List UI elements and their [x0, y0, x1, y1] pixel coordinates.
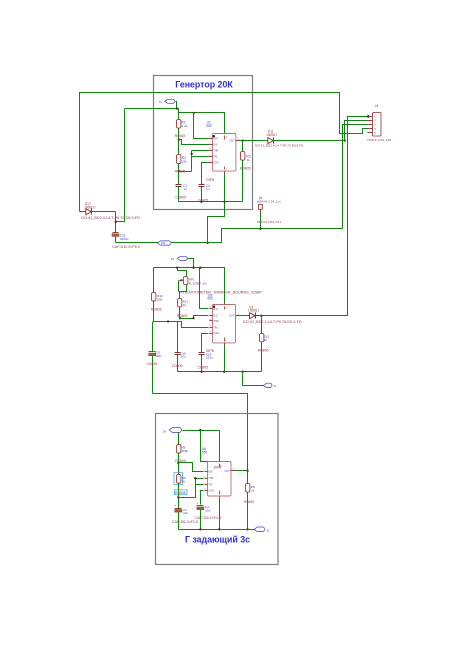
wire R2 to C1: [178, 164, 180, 185]
svg-text:+: +: [196, 502, 198, 506]
svg-text:3300u: 3300u: [120, 237, 129, 241]
svg-text:500: 500: [157, 297, 162, 301]
capacitor C19: [198, 334, 214, 372]
svg-text:1n: 1n: [206, 187, 210, 191]
wire gnd bus middle: [178, 371, 262, 373]
resistor R8: [244, 471, 255, 530]
svg-text:C0805: C0805: [147, 362, 158, 366]
svg-text:DO-41_BD2.4-L4.7-P8.70-D0.9-FD: DO-41_BD2.4-L4.7-P8.70-D0.9-FD: [243, 320, 302, 324]
svg-text:POTENTIOMETER_TRIMMER_BOURNS_3: POTENTIOMETER_TRIMMER_BOURNS_3296P: [179, 290, 262, 294]
wire bus to J4 pin 3: [208, 125, 368, 243]
svg-text:R0805: R0805: [240, 166, 251, 170]
svg-text:+: +: [174, 504, 176, 508]
title Генертор 20К: [175, 80, 233, 90]
svg-text:DIP8: DIP8: [214, 466, 222, 470]
resistor R1: [175, 113, 188, 139]
svg-text:100n: 100n: [155, 354, 162, 358]
wire RST branch to U1: [194, 113, 209, 139]
svg-text:OUT: OUT: [229, 315, 235, 318]
svg-text:C0805: C0805: [175, 196, 186, 200]
wire R13 to DIS: [179, 307, 209, 320]
svg-text:555: 555: [202, 451, 208, 455]
capacitor C18: [172, 322, 186, 372]
wire J6 to bus: [260, 213, 262, 229]
svg-text:Г задающий 3с: Г задающий 3с: [185, 535, 250, 545]
diode D11: [255, 130, 346, 148]
diode D3: [239, 305, 302, 324]
svg-text:CAP-D10.0×P5.0: CAP-D10.0×P5.0: [112, 245, 140, 249]
svg-text:OUT: OUT: [229, 140, 235, 143]
svg-text:1N5817: 1N5817: [248, 309, 260, 313]
svg-text:DO-41_BD2.4-L4.7-P8.70-D0.9-FD: DO-41_BD2.4-L4.7-P8.70-D0.9-FD: [255, 144, 304, 148]
svg-text:1k: 1k: [247, 158, 251, 162]
resistor R2: [175, 155, 188, 174]
svg-text:R0805: R0805: [175, 491, 186, 495]
svg-text:DIS: DIS: [208, 470, 213, 473]
wire U6 gnd to rail: [219, 500, 221, 530]
net flag 5V top: [159, 99, 177, 108]
wire R5 to R6 and DIS stair: [177, 453, 203, 475]
resistor R6: [174, 473, 187, 495]
wire to net flag 3s middle: [243, 372, 264, 386]
svg-text:10u: 10u: [205, 509, 210, 513]
svg-text:1N5817: 1N5817: [84, 206, 96, 210]
svg-text:TRI: TRI: [208, 484, 212, 487]
op-amp U6 555: [202, 447, 235, 499]
svg-text:HDR-F-2.54_1X5: HDR-F-2.54_1X5: [367, 138, 391, 142]
net flag 5V middle: [171, 256, 194, 267]
svg-text:1k: 1k: [183, 303, 187, 307]
svg-text:CON: CON: [208, 489, 214, 492]
wire VCC rail bottom: [183, 429, 220, 459]
resistor R15: [258, 316, 269, 372]
resistor R3: [240, 141, 251, 202]
svg-text:CON: CON: [213, 332, 219, 335]
wire R1 to R2 and DIS stair: [178, 129, 209, 155]
wire RST branch to U5: [200, 268, 209, 309]
svg-text:1N5817: 1N5817: [266, 133, 277, 137]
svg-text:R0805: R0805: [177, 314, 188, 318]
capacitor C11: [112, 233, 140, 250]
diode D17: [80, 202, 141, 220]
wire RP1 wiper and bottom to R13: [179, 281, 187, 299]
wire VCC rail top box: [125, 107, 225, 133]
svg-text:24V: 24V: [161, 241, 166, 245]
wire gnd drop from box to bus: [208, 202, 225, 243]
svg-text:DIS: DIS: [213, 144, 218, 147]
net flag 1s bottom: [163, 428, 182, 445]
frame box generator 20K: [154, 76, 253, 210]
svg-text:3k: 3k: [182, 480, 186, 484]
wire R6 to C3 and THR TRI tie: [177, 477, 203, 509]
op-amp U5 555: [207, 293, 239, 345]
svg-text:DO-41_BD2.4-L4.7-P8.70-D0.9-FD: DO-41_BD2.4-L4.7-P8.70-D0.9-FD: [81, 216, 140, 220]
wire 24V left vertical and top horizontal to J4 pin 4: [80, 93, 368, 212]
svg-text:THR: THR: [213, 320, 218, 323]
wire U5 gnd to bus: [224, 346, 226, 372]
svg-text:C0805: C0805: [198, 366, 209, 370]
svg-text:DIP8: DIP8: [206, 178, 214, 182]
svg-text:C0805: C0805: [172, 364, 183, 368]
svg-text:R0805: R0805: [151, 307, 162, 311]
wire VCC rail middle: [154, 267, 225, 302]
capacitor C4: [198, 163, 210, 203]
wire J4 pin2 to D11: [345, 121, 368, 141]
net flag 3s bottom: [248, 527, 270, 532]
wire U1 out: [239, 139, 268, 141]
net flag 24V: [158, 241, 172, 245]
svg-text:THR: THR: [213, 149, 218, 152]
svg-text:555: 555: [207, 297, 213, 301]
svg-text:TRI: TRI: [213, 156, 217, 159]
svg-text:THR: THR: [208, 477, 213, 480]
op-amp U1 555: [206, 121, 240, 182]
wire U1 gnd pin to bus: [224, 175, 226, 202]
svg-text:Генертор 20К: Генертор 20К: [175, 80, 233, 90]
svg-text:R_3296P_EU: R_3296P_EU: [189, 282, 207, 286]
svg-text:100n: 100n: [206, 356, 213, 360]
svg-text:R0805: R0805: [258, 349, 269, 353]
svg-text:555: 555: [206, 124, 212, 128]
svg-text:2.2k: 2.2k: [182, 124, 188, 128]
svg-text:22k: 22k: [182, 160, 187, 164]
svg-text:CAP-D6.3×F2.5: CAP-D6.3×F2.5: [195, 516, 221, 520]
wire long link middle to bottom: [153, 394, 248, 471]
svg-text:10u: 10u: [183, 511, 188, 515]
svg-text:1n: 1n: [183, 187, 187, 191]
wire RP1 top to rail: [178, 268, 187, 277]
svg-text:1k: 1k: [251, 489, 255, 493]
capacitor C3: [172, 504, 198, 529]
svg-text:RST: RST: [213, 137, 218, 140]
connector J4: [367, 104, 391, 142]
svg-text:5V: 5V: [163, 429, 166, 433]
svg-text:CAP-D6.3×F1.5: CAP-D6.3×F1.5: [172, 520, 198, 524]
resistor R13: [177, 299, 189, 318]
potentiometer RP1: [179, 277, 263, 295]
wire RST stair bottom: [201, 431, 211, 464]
wire rail stub down left of box: [117, 109, 125, 222]
wire gnd rail bottom: [179, 528, 249, 530]
svg-text:RST: RST: [213, 308, 218, 311]
capacitor C1: [175, 184, 187, 202]
net flag 3s middle: [264, 383, 277, 388]
svg-text:5V: 5V: [159, 100, 162, 104]
svg-text:R0805: R0805: [175, 134, 186, 138]
svg-text:CON: CON: [213, 162, 219, 165]
svg-text:300k: 300k: [182, 449, 189, 453]
wire D17 cathode down to C11: [115, 212, 117, 233]
capacitor C21: [147, 322, 163, 394]
svg-text:DIS: DIS: [213, 314, 218, 317]
svg-text:10n: 10n: [181, 355, 186, 359]
frame box bottom: [156, 414, 279, 565]
wire THR TRI tie: [179, 151, 209, 172]
wire J4 pin1 long to D3 node: [262, 115, 370, 315]
svg-text:HDR-M-2.54_1x1: HDR-M-2.54_1x1: [257, 200, 281, 204]
wire R10 bottom to TRI: [154, 301, 209, 328]
wire 24V bus with net flag: [116, 242, 209, 244]
svg-text:5V: 5V: [171, 257, 174, 261]
resistor R5: [175, 445, 188, 464]
svg-text:J4: J4: [375, 104, 379, 108]
svg-text:OUT: OUT: [225, 470, 231, 473]
resistor R10: [151, 268, 163, 312]
title Г задающий 3с: [185, 535, 250, 545]
svg-text:1k: 1k: [264, 338, 268, 342]
svg-text:R0805: R0805: [244, 500, 255, 504]
connector J6: [257, 196, 282, 224]
wire gnd bus top box: [179, 201, 243, 203]
wire U6 out to R8 node: [235, 470, 249, 472]
capacitor C4: [195, 491, 221, 530]
svg-text:TRI: TRI: [213, 326, 217, 329]
